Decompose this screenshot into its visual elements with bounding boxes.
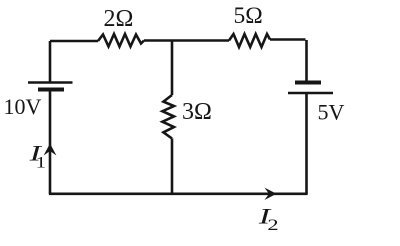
resistor R3 3Ω zigzag	[162, 95, 174, 139]
resistor R2 5Ω zigzag	[229, 34, 270, 47]
arrow I2 (current arrow right on bottom wire)	[265, 188, 277, 200]
wire middle vertical lower	[171, 139, 174, 195]
svg-text:2: 2	[267, 217, 278, 234]
wire middle vertical upper	[171, 41, 174, 96]
battery B2 5V plates	[288, 83, 333, 94]
resistor R1 2Ω zigzag	[98, 34, 144, 47]
arrow I1 (current arrow up on left branch)	[44, 144, 57, 156]
svg-text:1: 1	[36, 154, 46, 171]
svg-text:5V: 5V	[318, 100, 345, 125]
svg-text:5Ω: 5Ω	[234, 3, 263, 29]
wire bottom segment	[49, 193, 308, 196]
wire top-right segment	[270, 38, 306, 41]
svg-text:10V: 10V	[4, 94, 42, 119]
wire left vertical upper	[49, 41, 52, 82]
wire left vertical lower	[49, 90, 52, 194]
battery B1 10V plates	[28, 83, 73, 90]
wire top-left segment	[50, 40, 98, 43]
wire right vertical lower	[305, 93, 308, 194]
wire top-middle segment	[144, 39, 229, 42]
svg-text:2Ω: 2Ω	[104, 6, 134, 32]
wire right vertical upper	[305, 40, 308, 82]
svg-text:3Ω: 3Ω	[182, 99, 212, 125]
